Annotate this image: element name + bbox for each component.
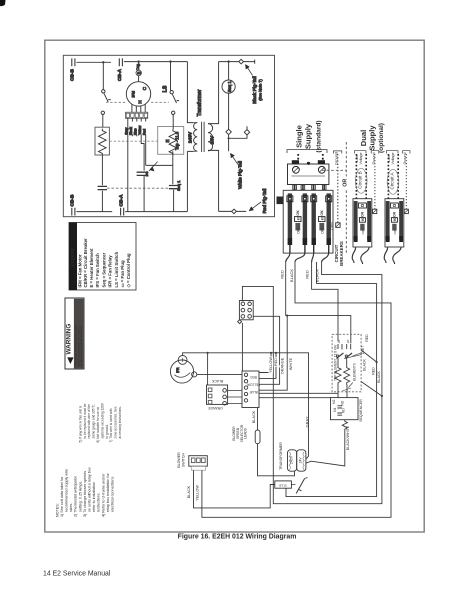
svg-text:(optional): (optional): [378, 123, 385, 153]
outer figure frame: [45, 40, 424, 532]
svg-text:ORANGE: ORANGE: [207, 406, 222, 410]
svg-text:240V: 240V: [188, 131, 194, 143]
dashed link element boxes: [109, 140, 157, 142]
wire terminal block down to plug connector: [241, 323, 243, 371]
svg-text:CB-A: CB-A: [117, 68, 123, 81]
control plug diamond (white pigtail wire): [226, 129, 231, 151]
wire red1: breaker to top element terminal 10: [286, 262, 351, 343]
fuse link box below transformer: [275, 478, 308, 494]
svg-text:BT10: BT10: [279, 483, 287, 487]
supply wires dotted (circuit B): [355, 154, 357, 199]
svg-text:Yellow: Yellow: [138, 125, 142, 135]
svg-text:systems exceeding 120V: systems exceeding 120V: [100, 402, 104, 438]
svg-text:OR: OR: [343, 179, 349, 187]
wire blue lead stub: [136, 118, 138, 136]
notes group 2: [78, 402, 122, 442]
wire element E down: [172, 151, 174, 184]
svg-text:same gauge and 105°C.: same gauge and 105°C.: [92, 404, 96, 439]
wire limit to rail red: [361, 350, 377, 362]
wire CB-A to primary: [187, 62, 193, 123]
svg-text:accessory instructions.: accessory instructions.: [118, 406, 122, 438]
sequencer contact Seq1 (right): [169, 180, 181, 212]
svg-text:to be replaced it must be: to be replaced it must be: [83, 403, 87, 438]
limit arm element 2: [345, 353, 352, 358]
node red1/white junction: [286, 315, 288, 317]
svg-text:WHITE: WHITE: [289, 357, 293, 370]
svg-text:20: 20: [337, 339, 341, 343]
svg-text:TOP ELEMENT, 13.8 KW: TOP ELEMENT, 13.8 KW: [334, 345, 338, 381]
svg-text:ON: ON: [320, 210, 324, 216]
switch CB-B heater switch: [101, 90, 111, 115]
svg-text:YELLOW: YELLOW: [196, 485, 200, 501]
wire terminal block to orange lead: [253, 316, 279, 384]
svg-text:on units without a relay box: on units without a relay box: [88, 467, 92, 512]
svg-text:Black: Black: [129, 127, 133, 135]
breaker block circuit B: [353, 199, 372, 247]
svg-text:Black Pig-Tail: Black Pig-Tail: [252, 76, 257, 104]
breaker block circuit A: [385, 199, 404, 247]
node red junction: [275, 352, 277, 354]
ground wire dotted (single): [337, 154, 339, 222]
svg-text:Single: Single: [295, 125, 304, 148]
labels yellow red orange white: [269, 357, 293, 375]
wire switch drop: [102, 62, 104, 89]
svg-text:LS = Limit Switch: LS = Limit Switch: [114, 251, 119, 287]
svg-text:YELLOW: YELLOW: [247, 383, 260, 387]
svg-text:60: 60: [393, 217, 397, 221]
control plug diamond stub: [244, 126, 249, 135]
node CB-B/switch junction: [102, 61, 104, 63]
label circuit breakers: [334, 241, 344, 266]
svg-text:Top - 11.6: Top - 11.6: [175, 131, 180, 150]
fan plug strip: [125, 112, 147, 118]
svg-text:4) Refer to U-frame and/or: 4) Refer to U-frame and/or: [101, 473, 105, 517]
wire element bottom to rail black: [361, 382, 382, 397]
circuit breaker CB-B top: [70, 58, 76, 81]
annotation black pig-tail: [246, 65, 263, 104]
heating element 2: [344, 358, 350, 385]
svg-text:24V: 24V: [298, 457, 302, 464]
wires breaker outputs: [286, 253, 290, 262]
wire coil to 24V: [306, 430, 345, 466]
svg-text:Seq 1: Seq 1: [227, 80, 232, 92]
sequencer coil: [342, 420, 347, 430]
svg-text:NO: NO: [341, 408, 345, 413]
svg-text:Red Pig-Tail: Red Pig-Tail: [262, 189, 267, 214]
svg-text:replaced with wire of the: replaced with wire of the: [87, 404, 91, 439]
svg-text:refer to installation: refer to installation: [92, 482, 96, 512]
svg-text:RED: RED: [371, 367, 375, 375]
wire CB-B bottom bus: [76, 211, 112, 213]
legend box: [69, 223, 136, 291]
wire black2 loop: breaker to terminal block (wraps page): [242, 262, 382, 504]
svg-text:BLACK: BLACK: [187, 485, 191, 498]
svg-text:LS: LS: [163, 85, 169, 92]
ground screw GRN (single): [336, 223, 340, 228]
svg-text:24V: 24V: [209, 135, 215, 144]
svg-text:sizes.: sizes.: [69, 503, 73, 512]
svg-text:240V: 240V: [289, 455, 293, 464]
sequencer coil Seq 1: [222, 62, 235, 130]
svg-text:6) Not suitable for use on: 6) Not suitable for use on: [96, 407, 100, 443]
svg-text:RED: RED: [280, 270, 285, 279]
label dual supply: [359, 123, 385, 153]
wire CB-A bottom bus: [125, 211, 187, 213]
wire relay contact to plug connector R: [197, 373, 242, 375]
blower switch: [177, 452, 207, 470]
wire contact to CB-B bottom bus: [101, 191, 103, 212]
breaker block (single supply): [283, 190, 333, 253]
supply wires dotted (single): [297, 154, 299, 164]
svg-text:BLACK: BLACK: [211, 379, 223, 383]
svg-text:Circuit B: Circuit B: [358, 171, 363, 188]
svg-text:E: E: [165, 139, 170, 142]
svg-text:IFR: IFR: [176, 367, 180, 373]
svg-text:BLACK/WHITE: BLACK/WHITE: [346, 425, 350, 450]
svg-text:Figure 16. E2EH 012 Wiring Dia: Figure 16. E2EH 012 Wiring Diagram: [178, 534, 297, 541]
interconnect bracket (single supply lugs): [288, 160, 329, 184]
label blower speed selector leads: [232, 424, 247, 442]
motor IFM: [126, 82, 150, 106]
connector black tab at furnace boundary: [277, 197, 284, 205]
svg-text:OFF: OFF: [297, 227, 301, 233]
svg-text:(See Note 7): (See Note 7): [259, 79, 263, 101]
bracket single supply feed: [287, 150, 327, 153]
node branch to second diamond: [228, 137, 230, 139]
transformer core: [202, 122, 205, 152]
supply wires dotted (circuit A): [387, 154, 389, 199]
svg-text:M1: M1: [333, 407, 337, 412]
svg-text:instructions.: instructions.: [97, 492, 101, 512]
svg-text:OFF: OFF: [361, 228, 365, 234]
svg-text:RED: RED: [305, 270, 310, 279]
wire block R to sequencer: [259, 393, 338, 397]
fan switch IFS contact: [137, 172, 149, 212]
wire black splice to transformer: [258, 408, 295, 476]
wire stub upper rail: [317, 262, 377, 283]
wire 24V common to red pig-tail: [219, 210, 247, 212]
svg-text:OFF: OFF: [321, 227, 325, 233]
sequencer contact Seq1 (left): [98, 186, 107, 189]
wires elements to sequencer: [338, 384, 347, 397]
dashed link switch to motor: [106, 101, 126, 103]
dashed link sequencer contacts: [107, 187, 169, 189]
wire CB-B top bus: [76, 61, 111, 63]
node LS branch: [169, 60, 171, 62]
wires motor leads to fan plug: [132, 104, 145, 112]
svg-text:SWITCH: SWITCH: [182, 453, 186, 468]
svg-text:(standard): (standard): [315, 120, 322, 152]
control plug diamond on red pigtail: [232, 209, 237, 214]
svg-text:ON: ON: [361, 211, 365, 216]
circuit breaker CB-A top: [117, 58, 123, 81]
svg-text:60: 60: [321, 216, 325, 220]
dashed link motor to LS: [151, 101, 169, 103]
wire yellow lead: [141, 118, 144, 170]
svg-text:relay box installation for: relay box installation for: [106, 472, 110, 512]
svg-text:BLACK: BLACK: [289, 269, 294, 282]
svg-text:Voltage: Voltage: [391, 153, 395, 165]
svg-text:ORANGE: ORANGE: [281, 357, 285, 374]
transformer: [187, 62, 218, 212]
OR separator: [345, 142, 347, 176]
svg-text:IFM: IFM: [132, 91, 136, 98]
svg-text:Legend:: Legend:: [70, 246, 76, 266]
svg-text:YELLOW: YELLOW: [269, 357, 273, 373]
limit switch LS: [163, 62, 180, 115]
annotation red pig-tail: [249, 189, 267, 214]
svg-text:BLACK: BLACK: [377, 371, 381, 383]
svg-text:zone accessories. See: zone accessories. See: [114, 406, 118, 438]
svg-text:to do so may cause electric sh: to do so may cause electric shock.: [79, 325, 83, 366]
svg-text:Supply: Supply: [304, 123, 313, 149]
svg-text:IFS = Fan Switch: IFS = Fan Switch: [95, 253, 100, 288]
transformer (control): [279, 442, 306, 471]
wires circuit B output: [352, 247, 369, 259]
wire yellow lead down: [259, 353, 271, 373]
limit arm element 1: [337, 353, 344, 358]
terminal block TB: [239, 301, 253, 320]
svg-text:CB-A: CB-A: [118, 194, 124, 207]
wire CB-A top bus: [124, 61, 187, 63]
svg-text:Org.: Org.: [136, 63, 140, 70]
svg-text:NO: NO: [340, 400, 344, 405]
svg-text:IFR = Fan Relay: IFR = Fan Relay: [108, 255, 113, 288]
scan blob top-left corner: [0, 0, 6, 6]
svg-text:CB-B: CB-B: [70, 194, 76, 207]
svg-text:3) To change blower speeds: 3) To change blower speeds: [83, 471, 87, 517]
svg-text:Blue: Blue: [134, 128, 138, 135]
svg-text:LEADS: LEADS: [244, 427, 248, 439]
wire white lead: [259, 316, 287, 391]
svg-text:2) Thermostat anticipator: 2) Thermostat anticipator: [74, 475, 78, 517]
svg-text:WARNING: WARNING: [66, 324, 73, 355]
heating element 1: [335, 358, 341, 385]
svg-text:60: 60: [297, 216, 301, 220]
warning box: [65, 298, 84, 369]
wire branch to control plug stub: [229, 135, 247, 139]
wire red lead: [145, 118, 147, 165]
svg-text:setting: 0.25 Amps.: setting: 0.25 Amps.: [78, 481, 82, 512]
svg-text:14 E2 Service Manual: 14 E2 Service Manual: [43, 571, 111, 578]
svg-text:ON: ON: [296, 210, 300, 216]
svg-text:RED: RED: [250, 375, 257, 379]
svg-text:recommended supply wire: recommended supply wire: [65, 469, 69, 512]
control plug diamond under terminal block: [238, 320, 242, 324]
24V bus with black pig-tail: [219, 59, 255, 64]
svg-text:Seq = Sequencer: Seq = Sequencer: [101, 252, 106, 287]
svg-text:electrical connections.: electrical connections.: [111, 476, 115, 512]
svg-text:H: H: [138, 100, 143, 103]
node yellow junction: [270, 352, 272, 354]
wires bracket to breakers: [295, 185, 325, 191]
wire black lead stub: [131, 118, 133, 136]
wire to element box: [102, 115, 104, 128]
label single supply: [295, 120, 323, 152]
IFS actuator arrow: [149, 162, 158, 171]
label (B) Org. wire tag: [136, 63, 142, 75]
wire red2: breaker to top element terminal 20: [312, 262, 338, 341]
svg-text:B: B: [136, 71, 141, 74]
wire relay drop to connector L: [207, 353, 209, 385]
ground screw GRN (circuit B): [373, 209, 377, 213]
node rail joins: [376, 361, 378, 363]
inner line-voltage box: [63, 55, 274, 216]
circuit breaker CB-B bottom: [70, 194, 76, 216]
circuit breaker CB-A bottom: [118, 194, 124, 216]
svg-text:Supply: Supply: [368, 125, 377, 151]
svg-text:RED: RED: [274, 358, 278, 366]
heater element box (CB-B side): [95, 127, 109, 155]
svg-text:BLOWER: BLOWER: [177, 452, 181, 468]
ground screw GRN (circuit A): [404, 209, 408, 213]
labels low voltage / ground (circuit A): [387, 153, 407, 165]
svg-text:◇ = Control Plug: ◇ = Control Plug: [126, 253, 131, 288]
svg-text:ELEMENTS: ELEMENTS: [352, 362, 356, 381]
svg-text:5) If any wire in this unit is: 5) If any wire in this unit is: [78, 405, 82, 442]
svg-text:NOTES:: NOTES:: [55, 503, 59, 517]
svg-text:20: 20: [346, 339, 350, 343]
wires circuit A output: [384, 247, 401, 259]
svg-text:CB-B: CB-B: [70, 68, 76, 81]
wire element to sequencer contact: [101, 155, 103, 185]
relay IFR: [170, 356, 196, 384]
svg-text:60: 60: [361, 217, 365, 221]
node relay drop: [207, 352, 209, 354]
resistor heater element: [99, 129, 107, 156]
wire rail red down: [286, 283, 377, 496]
labels low voltage / ground (circuit B): [355, 153, 376, 165]
svg-text:ON: ON: [393, 211, 397, 216]
svg-text:BLACK: BLACK: [362, 359, 366, 371]
svg-text:Seq 1: Seq 1: [176, 180, 181, 191]
annotation white pig-tail: [231, 154, 243, 189]
wire switch black to fuse box: [194, 470, 275, 508]
wires block L to block R: [228, 391, 242, 404]
connector block R: [242, 371, 260, 408]
wire black1: breaker to blower switch loop: [202, 262, 391, 517]
heater element E box: [158, 115, 184, 156]
sequencer box: [331, 398, 359, 420]
wire secondary bottom: [208, 150, 219, 211]
svg-text:Red: Red: [143, 129, 147, 135]
svg-text:BREAKERS: BREAKERS: [339, 241, 344, 266]
svg-text:TRANSFORMER: TRANSFORMER: [279, 442, 283, 470]
svg-text:IFS: IFS: [145, 172, 149, 177]
svg-text:E = Heater Element: E = Heater Element: [89, 248, 94, 288]
svg-text:Circuit A: Circuit A: [389, 172, 394, 190]
label circuit B: [355, 168, 367, 193]
top element box: [332, 334, 361, 392]
svg-text:M2: M2: [332, 399, 336, 404]
primary winding 240V: [194, 123, 198, 152]
svg-text:Transformer: Transformer: [197, 89, 203, 116]
svg-text:OFF: OFF: [393, 228, 397, 234]
wire red to element E: [146, 164, 173, 166]
svg-text:CB/KR = Circuit Breaker: CB/KR = Circuit Breaker: [83, 238, 88, 288]
wire secondary top to 24V bus: [208, 62, 219, 124]
label circuit A: [387, 169, 399, 194]
wire red lead down: [259, 353, 276, 379]
secondary winding 24V: [208, 124, 213, 151]
wire relay coil top to gray: [183, 353, 309, 459]
connector block L: [207, 379, 228, 410]
svg-text:Voltage: Voltage: [359, 153, 363, 165]
svg-text:Gray: Gray: [125, 127, 129, 134]
svg-text:▭ = Fan Plug: ▭ = Fan Plug: [120, 260, 125, 287]
svg-text:1) See unit data label for: 1) See unit data label for: [60, 476, 64, 517]
svg-text:C: C: [142, 86, 147, 90]
svg-text:BLACK: BLACK: [252, 410, 256, 423]
node motor branch: [137, 60, 139, 62]
splice capsule: [255, 430, 260, 444]
control plug diamond on bus: [239, 59, 244, 64]
svg-text:RED: RED: [365, 334, 369, 342]
svg-text:7) This wire is used with: 7) This wire is used with: [109, 408, 113, 442]
wire gray lead: [127, 118, 129, 211]
svg-text:BLUE: BLUE: [249, 390, 257, 394]
svg-text:GRAY: GRAY: [305, 416, 310, 427]
wire motor drop: [138, 62, 140, 82]
svg-text:to ground.: to ground.: [105, 424, 109, 438]
svg-text:SEQUENCER: SEQUENCER: [359, 399, 363, 422]
